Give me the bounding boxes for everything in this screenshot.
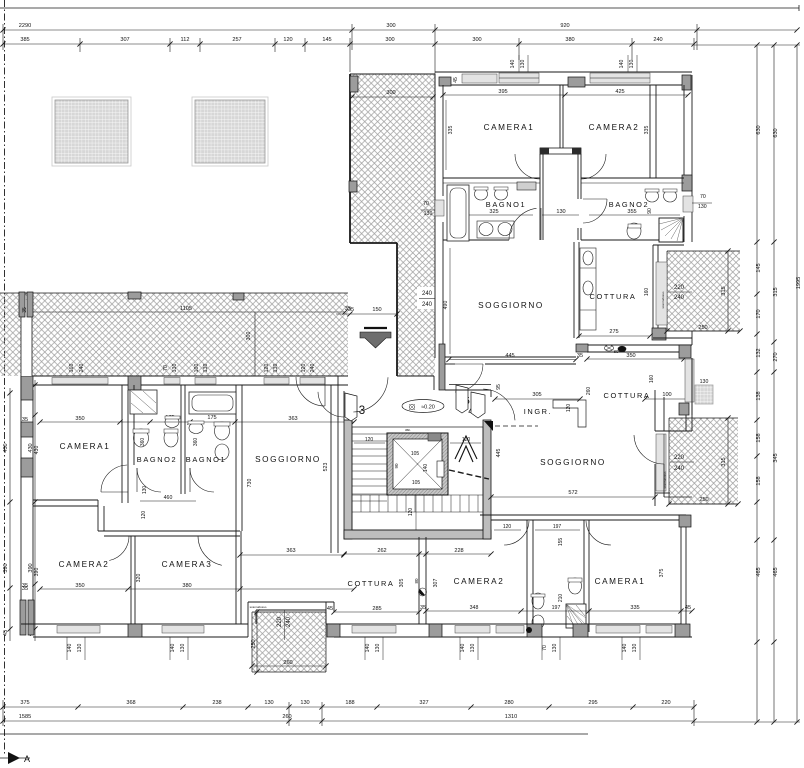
right margin overall dim line [796,45,798,722]
svg-text:630: 630 [756,125,762,134]
svg-text:315: 315 [773,287,779,296]
landing door 3 leaf [345,393,357,421]
small grid box east [695,385,713,404]
landing floor [397,375,434,377]
svg-text:350: 350 [75,416,84,422]
apt4 east wall lower [654,464,656,506]
svg-text:45: 45 [453,77,459,83]
svg-text:105: 105 [411,451,420,457]
svg-text:120: 120 [141,511,147,520]
apt4 cottura dim 100 [645,398,689,400]
balcony walkway white strip [21,300,32,376]
svg-text:120: 120 [365,437,374,443]
apt5 cottura wall [573,242,575,338]
svg-text:260: 260 [586,387,592,396]
svg-text:445: 445 [505,353,514,359]
apt3 bagno2 sink [165,417,179,428]
svg-text:360: 360 [140,438,146,447]
svg-text:315: 315 [721,286,727,295]
apt3 top wall outer [21,375,348,377]
apt3 top wall inner [33,384,348,386]
apt5 cottura counter [580,248,596,330]
apt3 camera1 east wall [121,385,123,503]
svg-text:730: 730 [247,479,253,488]
svg-text:260: 260 [283,660,292,666]
svg-text:BAGNO2: BAGNO2 [137,455,177,464]
svg-text:285: 285 [372,606,381,612]
svg-text:95: 95 [496,384,502,390]
svg-text:130: 130 [375,644,381,653]
apt3 bagno1 door arc [190,468,214,492]
apt3 top window sill camera1 [52,378,108,385]
svg-text:130: 130 [629,60,635,69]
svg-text:197: 197 [553,524,562,530]
svg-text:130: 130 [632,644,638,653]
east balcony lower dim 315 [727,418,729,504]
bagno2 sink 1 [646,190,659,202]
apt4 cottura east wall [685,352,687,358]
svg-text:130: 130 [698,204,707,210]
bagno2 toilet [627,223,641,239]
balcony dim 1105 [27,311,345,313]
stair up arrow [459,446,473,462]
apt3 top door 120/240 [300,378,325,385]
apt5 top wall window sill 2 [590,73,650,83]
apt5 east window 70/130 [683,196,693,212]
apt3 camera divider wall [130,536,132,625]
apt4 ingr door dashed [495,425,538,427]
svg-text:307: 307 [120,37,129,43]
landing ellipse level [402,400,444,413]
svg-text:315: 315 [721,457,727,466]
apt5 entry pillar [439,344,445,390]
bagno1 wall sink 1 [475,188,488,200]
apt5 east wall [691,75,693,242]
svg-text:35: 35 [420,605,426,611]
svg-text:CAMERA2: CAMERA2 [454,577,505,586]
svg-text:138: 138 [756,391,762,400]
svg-text:120: 120 [264,364,270,373]
svg-text:250: 250 [698,325,707,331]
svg-text:140: 140 [622,644,628,653]
svg-text:155: 155 [558,538,564,547]
apt4 bagno toilet [569,578,582,594]
apt3 west wall pillar 3 [20,600,26,635]
svg-text:70: 70 [163,365,169,371]
svg-text:345: 345 [773,453,779,462]
right margin dim line 2 [773,45,775,722]
landing door 3 arc [318,392,344,417]
apt3 cottura dim 285/45 [334,611,419,613]
bottom dimension row 375..220 [3,706,694,708]
south hatch dim 250 [256,612,258,672]
svg-text:scannafosso: scannafosso [663,471,667,488]
svg-text:380: 380 [565,37,574,43]
svg-text:132: 132 [756,348,762,357]
svg-text:240: 240 [310,364,316,373]
svg-text:120: 120 [283,37,292,43]
bottom long line [0,733,588,735]
south hatch square [252,612,326,672]
bagno1 wall sink 2 [495,188,508,200]
axis dash-dot vertical line left [4,0,6,756]
bagno1 door arc [509,208,537,240]
svg-text:300: 300 [472,37,481,43]
svg-text:445: 445 [496,449,502,458]
svg-text:250: 250 [251,639,257,648]
svg-text:465: 465 [773,567,779,576]
svg-text:240: 240 [422,291,433,297]
svg-text:90: 90 [394,463,399,469]
camera1 door arc [515,154,540,179]
apt4 cottura top dim 350 [587,358,684,360]
apt5 corner pillar NW [439,77,451,86]
svg-text:280: 280 [504,700,513,706]
east balcony upper dim 315 [727,251,729,331]
bottom dimension row 1585/260/1310 [3,720,694,722]
skylight grid square right [192,97,268,166]
east balcony hatch lower [669,418,738,504]
apt3 west wall pillar 1 [21,376,33,400]
svg-text:325: 325 [489,209,498,215]
svg-text:490: 490 [443,301,449,310]
landing west wall [337,376,339,420]
apt4 bottom pillars [429,624,442,637]
balcony hatch band west [0,293,348,376]
svg-text:120: 120 [503,524,512,530]
apt5 bottom wall west [443,356,576,358]
apt5 cottura dim 275 [579,335,650,337]
svg-text:130: 130 [520,60,526,69]
terrace dim 240/240 labels [417,287,437,309]
svg-text:300: 300 [246,332,252,341]
apt5 pillar N mid [568,77,585,87]
apt3 camera1 door arc [101,465,127,492]
stair core east wall [483,420,491,539]
svg-text:145: 145 [322,37,331,43]
terrace parapet pillar top [350,76,358,92]
bagno1 bathtub [447,185,469,241]
svg-text:140: 140 [170,644,176,653]
apt4 east window [685,359,694,402]
svg-text:240: 240 [674,295,685,301]
apt4 soggiorno dim 572 [491,496,655,498]
apt5 top wall window 140/130 [499,73,539,83]
apt4 toilet nook circle [526,627,532,633]
svg-text:348: 348 [470,605,479,611]
stair inner boundary [352,427,483,530]
svg-text:CAMERA1: CAMERA1 [595,577,646,586]
svg-text:130: 130 [264,700,273,706]
apt3 bottom wall [21,623,248,625]
svg-text:70: 70 [542,645,548,651]
bagno band top wall [443,177,540,179]
apt5 terrace door arc [455,364,483,392]
bagno2 shower [659,218,683,242]
balcony dim 300 vertical [254,312,256,376]
right margin dim line 1 [756,45,758,722]
section marker A [8,752,20,764]
svg-text:300: 300 [386,23,395,29]
svg-text:130: 130 [424,211,433,217]
svg-text:1310: 1310 [505,714,517,720]
apt4 bottom dim row [426,610,692,612]
apt3 bagno1 toilet [215,422,230,440]
east balcony hatch upper [667,251,740,331]
svg-text:238: 238 [212,700,221,706]
svg-text:CAMERA1: CAMERA1 [484,123,535,132]
svg-text:380: 380 [182,583,191,589]
left margin dim line inner [9,388,11,641]
svg-text:260: 260 [282,714,291,720]
svg-text:335: 335 [448,126,454,135]
svg-text:COTTURA: COTTURA [604,391,651,400]
corridor walls to bagno band [539,154,541,240]
apt4 camera1 door arc [586,521,611,545]
svg-text:CAMERA1: CAMERA1 [60,442,111,451]
camera2 east wall [649,85,651,178]
svg-text:305: 305 [399,579,405,588]
apt3 cottura bottom windows [352,626,396,634]
apt4 divider cottura/camera2 [418,537,420,624]
apt4 east wall camera1 [680,515,682,637]
svg-text:CAMERA2: CAMERA2 [59,560,110,569]
svg-text:305: 305 [532,392,541,398]
apt4 door wedge [484,421,493,431]
svg-text:257: 257 [232,37,241,43]
svg-text:920: 920 [560,23,569,29]
apt5 top wall outer [435,71,692,73]
apt3 camera2 door arc [109,536,129,561]
apt3 top window 100/130 [195,378,216,385]
svg-text:390: 390 [3,563,9,572]
svg-text:240: 240 [422,302,433,308]
svg-text:240: 240 [79,364,85,373]
landing door 4 arc [483,389,515,420]
svg-text:130: 130 [300,700,309,706]
svg-text:300: 300 [386,90,395,96]
apt5 cottura east pillar low [652,328,666,340]
svg-text:100: 100 [194,364,200,373]
svg-text:197: 197 [552,605,561,611]
stair core dim 262/228 [344,553,491,555]
apt4 cottura top wall [576,344,692,346]
apt3 camera dims 350/380 [40,588,354,590]
svg-text:375: 375 [20,700,29,706]
top border line [0,7,799,9]
apt3 west wall pillar 1b [21,422,33,437]
svg-text:363: 363 [288,416,297,422]
svg-text:307: 307 [433,579,439,588]
svg-text:220: 220 [674,285,685,291]
apt3 top window 120/130 [264,378,289,385]
svg-text:70: 70 [700,194,706,200]
bagno band bottom wall [443,239,509,241]
svg-text:70: 70 [423,201,429,207]
apt4 bagno shower [566,604,586,628]
svg-text:2290: 2290 [19,23,31,29]
svg-text:250: 250 [699,497,708,503]
elevator shaft outer [387,433,448,495]
apt5 west wall [434,74,436,358]
apt4 south rooms top wall [480,514,686,516]
apt4 kitchen counter [553,400,586,427]
apt5 dim 445/35 [449,359,576,361]
apt5 top wall inner [443,84,684,86]
svg-text:140: 140 [423,464,429,473]
svg-text:523: 523 [323,463,329,472]
apt3 soggiorno east wall [330,385,332,553]
apt3 top window 70/130 [164,378,180,385]
apt4 bagno walls [526,520,528,632]
svg-text:120: 120 [408,508,414,517]
apt3 top wall pillar [128,376,141,390]
svg-text:130: 130 [172,364,178,373]
apt3 bagno2 bidet [164,429,178,447]
apt3 interior dim row 350/175/175/363 [40,421,354,423]
camera divider wall [559,85,561,149]
apt3 soggiorno dim 363 [240,554,344,556]
apt3 bagno2 walls [127,390,129,465]
elevator door [428,433,441,441]
apt4 east wall [691,358,693,415]
svg-text:A: A [24,754,30,764]
vent symbols [605,345,614,351]
svg-text:300: 300 [385,37,394,43]
svg-text:105: 105 [412,480,421,486]
svg-text:80: 80 [613,349,619,354]
svg-text:1995: 1995 [796,277,802,289]
svg-text:158: 158 [756,433,762,442]
apt3 camera3 east wall [235,531,237,624]
apt3 west wall pillar 2 [21,458,33,477]
svg-text:363: 363 [286,548,295,554]
svg-text:220: 220 [277,616,283,627]
svg-text:CAMERA2: CAMERA2 [589,123,640,132]
bagno2 door arc [583,199,607,223]
stair core west wall [344,420,352,539]
svg-text:335: 335 [630,605,639,611]
stair steps south flight [360,495,362,512]
svg-text:210: 210 [558,594,564,603]
right margin top connector [694,44,800,46]
apt3 west wall [20,376,22,635]
svg-text:140: 140 [619,60,625,69]
svg-text:390: 390 [34,568,40,577]
svg-text:220: 220 [661,700,670,706]
apt4 bottom wall [426,623,681,625]
skylight grid square left [52,97,131,166]
landing corridor arc [353,377,388,412]
svg-text:SOGGIORNO: SOGGIORNO [540,458,606,467]
svg-text:130: 130 [273,364,279,373]
svg-text:320: 320 [136,574,142,583]
svg-text:35: 35 [22,307,28,313]
svg-text:130: 130 [77,644,83,653]
svg-text:140: 140 [67,644,73,653]
apt4 balcony french door sill [656,434,666,491]
apt3 bagno1 sink [189,423,203,434]
apt4 balcony door arc [634,435,664,464]
apt3 bagno1 walls [235,385,237,531]
svg-text:150: 150 [372,307,381,313]
svg-text:≈0.20: ≈0.20 [421,405,435,411]
dimension row 385..240 [3,43,694,45]
svg-text:145: 145 [756,263,762,272]
svg-text:CAMERA3: CAMERA3 [162,560,213,569]
dimension row 2290/300/920 [3,29,797,31]
svg-text:112: 112 [181,37,190,43]
apt3 bagno1 bathtub [189,392,236,414]
svg-text:SOGGIORNO: SOGGIORNO [478,301,544,310]
balcony walkway posts [19,292,25,317]
svg-text:270: 270 [773,352,779,361]
svg-text:240: 240 [286,616,292,627]
svg-text:140: 140 [510,60,516,69]
elevator shaft inner [393,439,442,489]
terrace hatch north-center [350,74,435,376]
svg-text:1105: 1105 [180,306,192,312]
bagno dims 325/130/355 [448,214,533,216]
svg-text:425: 425 [615,89,624,95]
apt5 cottura east wall band [652,245,654,338]
apt5 west wall window 70/130 [435,200,444,216]
svg-text:INGR.: INGR. [524,407,553,416]
svg-text:35: 35 [22,583,28,589]
svg-text:158: 158 [756,476,762,485]
apt3 corridor walls [33,499,98,501]
apt5 cottura east window [656,262,667,325]
svg-text:572: 572 [568,490,577,496]
svg-text:90: 90 [647,208,653,214]
svg-text:scannafosso: scannafosso [661,291,665,308]
apt3 bottom windows [57,626,100,634]
apt3 bagno2 shower [130,390,157,414]
apt5 east pillar [682,175,692,191]
apt4 camera2 door arc [504,521,529,545]
svg-text:35: 35 [577,353,583,359]
svg-text:368: 368 [126,700,135,706]
south hatch dim 260 [252,665,326,667]
svg-text:630: 630 [773,128,779,137]
bagno1 shelf [517,182,536,190]
elevator cross [393,439,442,489]
bagno2 sink 2 [664,190,677,202]
east balcony upper dim 250 [667,330,740,332]
svg-text:395: 395 [498,89,507,95]
svg-text:160: 160 [644,288,650,297]
svg-text:80: 80 [414,578,419,584]
apt5 west wall lower [442,222,444,357]
elevator rail [437,461,444,477]
apt3 balcony door arc [296,377,325,406]
svg-text:140: 140 [460,644,466,653]
apt3 bagno1 bidet [215,444,229,460]
stair steps west flight [352,433,387,435]
svg-text:scannafosso: scannafosso [250,605,267,609]
svg-text:SOGGIORNO: SOGGIORNO [255,455,321,464]
camera doors lintel [540,148,581,154]
apt4 bagno fixtures bidet [532,615,544,629]
svg-text:385: 385 [20,37,29,43]
svg-text:350: 350 [75,583,84,589]
svg-text:160: 160 [649,375,655,384]
svg-text:120: 120 [301,364,307,373]
apt5 soggiorno dim 490 [449,248,451,354]
svg-text:45: 45 [3,630,9,636]
svg-text:188: 188 [345,700,354,706]
camera1 west dim 335 [445,100,447,170]
